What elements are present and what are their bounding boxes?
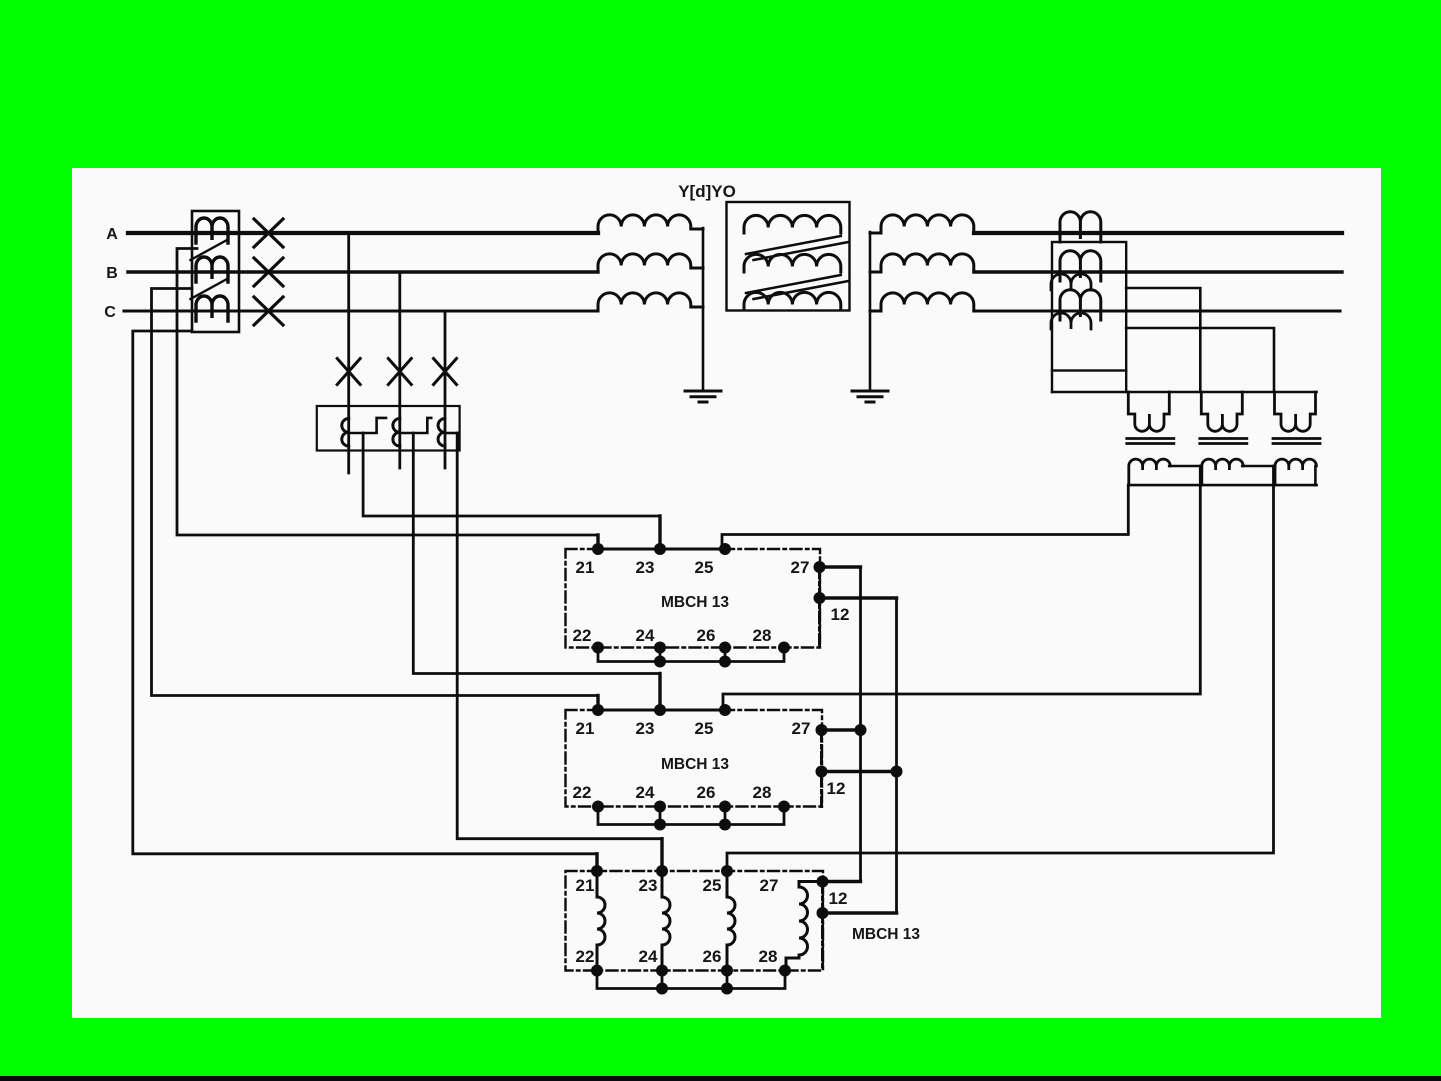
svg-text:A: A	[106, 226, 118, 243]
svg-text:26: 26	[703, 947, 722, 966]
svg-text:22: 22	[573, 626, 592, 645]
svg-text:28: 28	[753, 626, 772, 645]
relay U2 pin 22	[592, 801, 604, 813]
wire CT3 out upper	[1126, 288, 1200, 392]
svg-text:28: 28	[753, 783, 772, 802]
svg-text:MBCH 13: MBCH 13	[661, 756, 729, 773]
relay U1 pin 12	[814, 592, 826, 604]
relay U1 MBCH 13 outline box	[566, 549, 821, 648]
wire CT2-A secondary to relay U1 pin 23	[363, 433, 660, 516]
CT1 zigzag link A	[191, 240, 228, 260]
T1 HV star winding phase B	[598, 254, 703, 272]
white schematic sheet	[72, 168, 1381, 1018]
wire CT2-C secondary to relay U3 pin 23	[457, 433, 662, 839]
isolating link X on phase C	[254, 297, 283, 325]
interposing secondary link X1-X2	[1169, 465, 1202, 468]
interposing CT primary rail	[1052, 391, 1317, 394]
relay U1 top terminal link 21-25	[598, 548, 722, 551]
wire phase C bus right segment	[974, 309, 1340, 312]
CT group 1 enclosure box	[192, 211, 239, 332]
interposing transformer X2 secondary	[1202, 459, 1243, 485]
wire U3 pin 12 to bus	[823, 911, 897, 915]
wire riser U2 pin 23	[658, 674, 661, 711]
wire CT1-C secondary to relay U3 pin 21	[133, 331, 597, 854]
relay U3 coil 27-28	[786, 882, 823, 971]
svg-text:22: 22	[576, 947, 595, 966]
relay U3 pin 26	[721, 965, 733, 977]
junction 12-bus at U2	[891, 766, 903, 778]
CT3 primary winding phase C	[1060, 290, 1101, 320]
CT group 2 enclosure box	[317, 406, 460, 451]
relay U3 pin 28	[779, 965, 791, 977]
wire U1 pin 12 to bus	[820, 596, 897, 600]
CT2 link C-out	[445, 432, 457, 435]
wire CT1-A secondary to relay U1 pin 21	[177, 249, 598, 536]
svg-text:26: 26	[697, 783, 716, 802]
svg-text:21: 21	[576, 719, 595, 738]
relay U2 pin 24	[654, 801, 666, 813]
relay U3 bus junction dots	[656, 983, 668, 995]
ground HV neutral	[685, 391, 721, 402]
isolating link X on tap A	[337, 359, 360, 385]
wire 12-bus vertical	[895, 598, 898, 913]
wire CT3 out lower	[1126, 328, 1274, 392]
wire CT1-B secondary to relay U2 pin 21	[152, 289, 599, 696]
relay U1 pin 23	[654, 543, 666, 555]
interposing X3 secondary end drop	[1314, 466, 1317, 485]
CT2 winding phase A	[342, 418, 349, 446]
wire 27-bus vertical	[859, 567, 862, 882]
relay U2 pin 26	[719, 801, 731, 813]
svg-text:25: 25	[695, 719, 714, 738]
T1 delta tertiary enclosure box	[727, 202, 850, 311]
relay U1 right edge emphasis	[818, 567, 821, 648]
svg-text:24: 24	[636, 783, 655, 802]
wire phase A bus left segment	[128, 231, 598, 235]
CT3 secondary winding phase B	[1051, 274, 1091, 290]
CT1 winding phase B	[196, 257, 228, 282]
relay U1 pin 25	[719, 543, 731, 555]
svg-text:12: 12	[831, 605, 850, 624]
T1 LV star winding phase B	[870, 254, 974, 272]
ground LV neutral	[852, 391, 888, 402]
interposing transformer X1 primary	[1128, 392, 1169, 431]
relay U3 coil 23-24	[662, 871, 670, 971]
isolating link X on tap C	[434, 359, 457, 385]
svg-text:23: 23	[636, 719, 655, 738]
relay U1 pin 28	[778, 642, 790, 654]
CT2 link B-C	[400, 418, 431, 433]
relay U3 pin 27	[817, 876, 829, 888]
CT3 primary winding phase A	[1060, 212, 1101, 242]
T1 HV neutral wire	[702, 228, 705, 391]
svg-text:12: 12	[829, 889, 848, 908]
wire U1 pin 27 to bus	[820, 565, 861, 568]
interposing secondary link X2-X3	[1242, 465, 1275, 468]
relay U1 bus junction dots	[654, 656, 666, 668]
T1 LV star winding phase A	[870, 215, 974, 233]
interposing transformer X3 primary	[1275, 392, 1316, 431]
isolating link X on tap B	[388, 359, 411, 385]
svg-text:25: 25	[703, 876, 722, 895]
T1 LV star winding phase C	[870, 293, 974, 311]
relay U3 secondary shorting bus	[597, 971, 785, 989]
relay U3 coil 21-22	[597, 871, 605, 971]
wire riser U1 pin 23	[658, 516, 661, 549]
relay U2 top terminal link 21-25	[598, 709, 722, 712]
bottom black strip	[0, 1076, 1441, 1081]
wire phase B bus right segment	[974, 270, 1342, 273]
svg-text:25: 25	[695, 558, 714, 577]
isolating link X on phase A	[254, 219, 283, 247]
svg-text:26: 26	[697, 626, 716, 645]
wire riser U3 pin 21	[595, 854, 598, 871]
svg-text:24: 24	[639, 947, 658, 966]
interposing transformer X3 core	[1273, 439, 1320, 444]
svg-text:22: 22	[573, 783, 592, 802]
interposing transformer X1 secondary	[1129, 459, 1170, 485]
relay U3 pin 22	[591, 965, 603, 977]
wire tap phase C down	[444, 311, 447, 468]
T1 delta winding 3	[744, 292, 841, 310]
wire X1 to relay U1 pin 25	[722, 485, 1128, 549]
relay U2 MBCH 13 outline box	[566, 710, 823, 807]
CT2 winding phase C	[438, 418, 445, 446]
CT1 zigzag link B	[191, 279, 228, 299]
svg-text:MBCH 13: MBCH 13	[661, 594, 729, 611]
svg-text:27: 27	[760, 876, 779, 895]
relay U2 pin 12	[816, 766, 828, 778]
relay U2 right edge emphasis	[820, 730, 823, 807]
relay U2 secondary shorting bus	[598, 807, 784, 825]
relay U3 right edge emphasis	[821, 882, 824, 971]
relay U2 pin 23	[654, 704, 666, 716]
svg-text:21: 21	[576, 876, 595, 895]
svg-text:21: 21	[576, 558, 595, 577]
relay U3 MBCH 13 outline box	[566, 871, 824, 971]
svg-text:24: 24	[636, 626, 655, 645]
relay U2 pin 25	[719, 704, 731, 716]
T1 delta diagonal link 1	[746, 236, 849, 260]
relay U3 pin 21	[591, 865, 603, 877]
CT group 3 enclosure box	[1052, 242, 1126, 371]
wire phase B bus left segment	[128, 270, 598, 273]
wire X3 to relay U3 pin 25	[727, 466, 1274, 871]
svg-text:23: 23	[639, 876, 658, 895]
wire riser U1 pin 21	[596, 535, 599, 549]
CT3 primary winding phase B	[1060, 251, 1101, 281]
relay U2 pin 21	[592, 704, 604, 716]
interposing transformer X2 core	[1200, 439, 1247, 444]
svg-text:Y[d]YO: Y[d]YO	[678, 182, 736, 201]
interposing transformer X1 core	[1127, 439, 1174, 444]
svg-text:28: 28	[759, 947, 778, 966]
relay U2 pin 27	[816, 724, 828, 736]
wire riser U3 pin 23	[660, 839, 663, 871]
relay U3 pin 25	[721, 865, 733, 877]
T1 delta winding 1	[744, 215, 841, 233]
interposing transformer X2 primary	[1201, 392, 1242, 431]
wire riser U2 pin 21	[596, 696, 599, 711]
relay U2 pin 28	[778, 801, 790, 813]
svg-text:23: 23	[636, 558, 655, 577]
wire phase C bus left segment	[124, 309, 598, 312]
svg-text:27: 27	[791, 558, 810, 577]
relay U3 pin 24	[656, 965, 668, 977]
relay U1 pin 26	[719, 642, 731, 654]
wire U2 pin 12 to bus	[822, 770, 897, 774]
CT1 winding phase C	[196, 296, 228, 321]
T1 HV star winding phase A	[598, 215, 703, 233]
relay U3 coil 25-26	[727, 871, 735, 971]
relay U3 pin 12	[817, 907, 829, 919]
wire tap phase A down	[347, 233, 350, 473]
relay U1 pin 27	[814, 561, 826, 573]
relay U2 bus junction dots	[654, 819, 666, 831]
svg-text:MBCH 13: MBCH 13	[852, 926, 920, 943]
CT2 link A-B	[349, 418, 386, 433]
relay U1 pin 21	[592, 543, 604, 555]
relay U1 pin 24	[654, 642, 666, 654]
T1 delta winding 2	[744, 254, 841, 272]
isolating link X on phase B	[254, 258, 283, 286]
wire U2 pin 27 to bus	[822, 728, 861, 731]
wire CT2-B secondary to relay U2 pin 23	[413, 433, 660, 674]
T1 delta diagonal link 2	[746, 275, 849, 299]
CT3 lower edge wires	[1052, 371, 1126, 393]
CT3 secondary winding phase C	[1051, 313, 1091, 329]
svg-text:12: 12	[827, 779, 846, 798]
wire U3 pin 27 to bus	[823, 880, 861, 883]
interposing CT secondary rail	[1128, 484, 1316, 487]
svg-text:B: B	[106, 265, 118, 282]
relay U1 pin 22	[592, 642, 604, 654]
T1 LV neutral wire	[869, 232, 872, 391]
wire phase A bus right segment	[974, 231, 1342, 235]
wire X2 to relay U2 pin 25	[723, 466, 1200, 710]
svg-text:27: 27	[792, 719, 811, 738]
wire tap phase B down	[398, 272, 401, 468]
svg-text:C: C	[104, 304, 116, 321]
junction 27-bus at U2	[855, 724, 867, 736]
CT2 winding phase B	[393, 418, 400, 446]
interposing transformer X3 secondary	[1275, 459, 1316, 485]
relay U3 pin 23	[656, 865, 668, 877]
T1 HV star winding phase C	[598, 293, 703, 311]
CT1 winding phase A	[196, 218, 228, 243]
relay U1 secondary shorting bus	[598, 648, 784, 662]
